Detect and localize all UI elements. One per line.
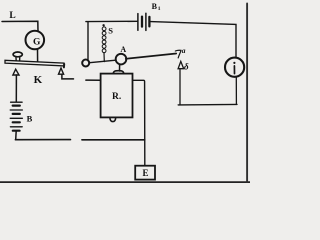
svg-text:R.: R. xyxy=(112,92,121,102)
bottom right horizontal wire xyxy=(178,103,237,106)
svg-text:G: G xyxy=(33,38,41,48)
svg-text:A: A xyxy=(120,45,126,54)
svg-text:L: L xyxy=(9,11,15,21)
key K bar xyxy=(5,60,64,66)
svg-text:S: S xyxy=(108,25,113,35)
svg-text:K: K xyxy=(34,74,43,86)
wire L to G xyxy=(2,21,38,31)
pivot node circle xyxy=(82,60,89,67)
ammeter I xyxy=(225,58,244,77)
svg-text:1: 1 xyxy=(158,6,161,12)
wire G to key xyxy=(37,49,39,61)
wire contact to R box left xyxy=(62,74,74,79)
wire pivot to A xyxy=(90,60,116,63)
key bar tip xyxy=(63,64,65,67)
wire delta contact down xyxy=(179,69,181,105)
wire I bottom xyxy=(235,77,237,104)
wire A to R box xyxy=(119,64,121,71)
galvanometer G xyxy=(26,31,45,50)
right contact arrow of key xyxy=(59,68,64,74)
svg-text:a: a xyxy=(182,46,186,55)
wire battery down xyxy=(15,131,18,140)
wire B1 to I xyxy=(151,22,236,58)
bottom wire left segment xyxy=(15,139,70,141)
cell E box xyxy=(135,166,155,180)
wire arrow to battery xyxy=(15,75,17,102)
right border xyxy=(246,4,248,183)
pointer lever from A xyxy=(126,54,176,59)
battery B1 xyxy=(137,14,139,31)
svg-text:B: B xyxy=(152,2,158,11)
coil S xyxy=(102,27,106,53)
wire pivot up to top xyxy=(87,22,89,59)
wire R box to E xyxy=(133,80,145,165)
R box top terminal xyxy=(113,71,124,74)
resistance box R xyxy=(101,74,133,118)
bottom border xyxy=(0,181,250,183)
left contact arrow xyxy=(13,69,19,75)
svg-text:B: B xyxy=(27,114,33,124)
key knob xyxy=(13,52,22,57)
svg-text:E: E xyxy=(143,168,149,178)
node A circle xyxy=(116,54,127,65)
contact b triangle xyxy=(178,61,184,68)
bottom wire right segment xyxy=(82,139,145,141)
contact a hook xyxy=(175,50,181,58)
top wire to B1 xyxy=(86,20,137,22)
battery B xyxy=(10,102,22,127)
svg-text:δ: δ xyxy=(184,61,189,71)
coil bottom link xyxy=(103,53,105,62)
R box bottom terminal xyxy=(110,118,116,122)
